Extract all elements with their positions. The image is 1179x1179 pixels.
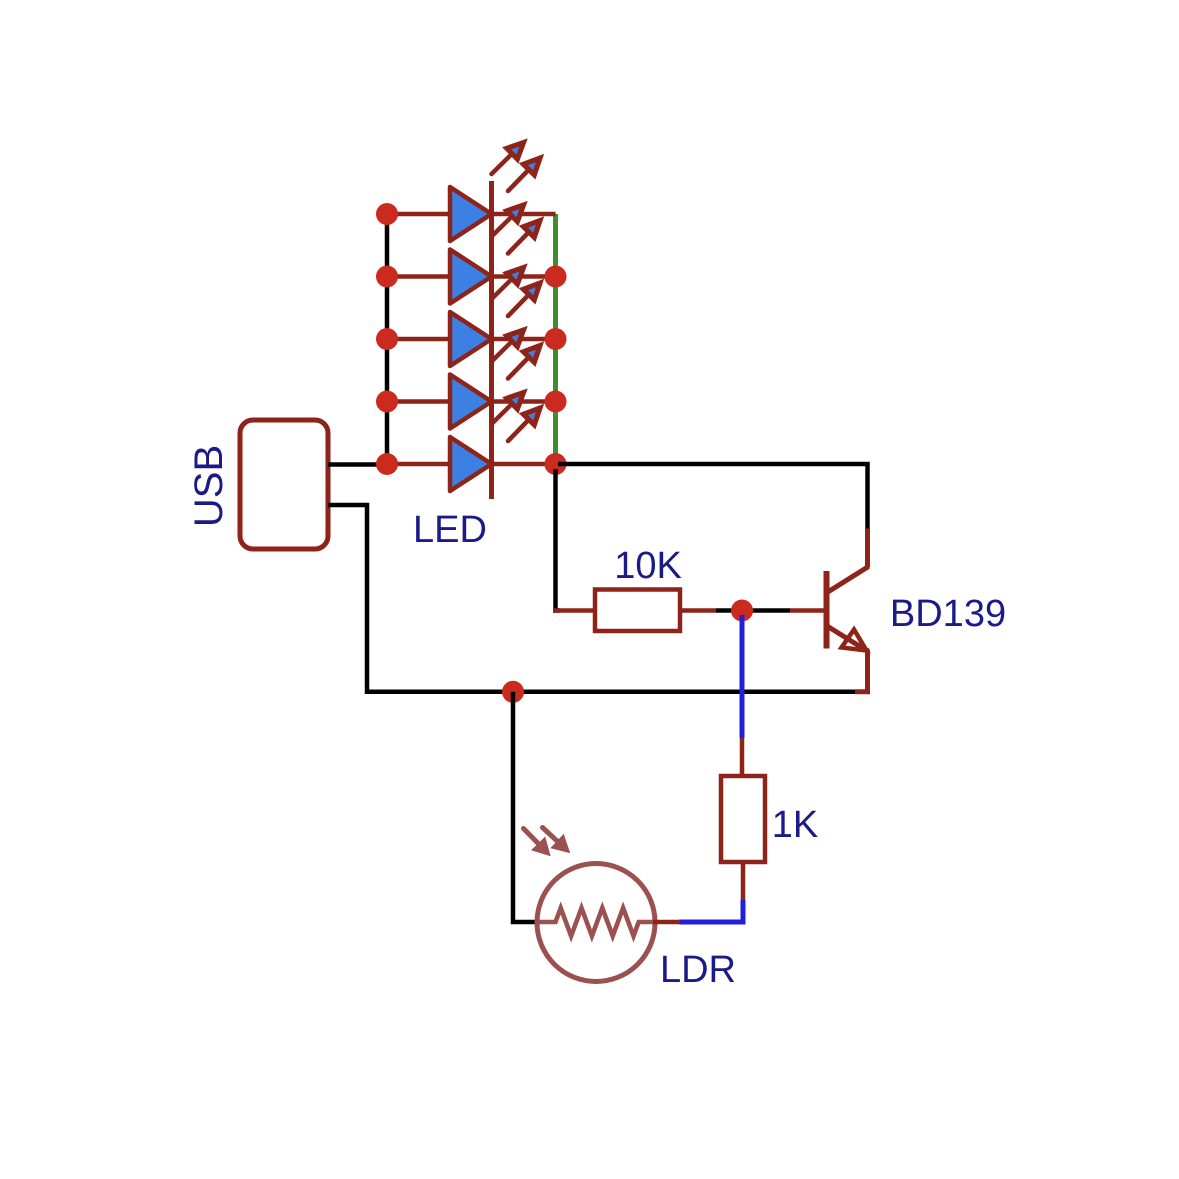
svg-text:LED: LED bbox=[413, 509, 487, 551]
wire LED D1 anode lead bbox=[387, 212, 450, 217]
LED D5 light arrow 2 bbox=[508, 408, 540, 441]
wire LED D5 cathode lead bbox=[492, 462, 556, 467]
wire USB pin1 to left LED bus (black) bbox=[328, 462, 383, 467]
wire LDR right lead bbox=[653, 920, 680, 925]
junction dot ground rail bbox=[502, 681, 524, 703]
transistor Q1 base bar bbox=[824, 571, 830, 649]
junction dot left bus row 3 bbox=[376, 328, 398, 350]
wire collector lead bbox=[865, 529, 870, 568]
wire 1K bottom lead bbox=[741, 862, 746, 900]
wire LED D3 cathode lead bbox=[492, 337, 556, 342]
LED D4 light arrow 2 bbox=[508, 346, 540, 379]
wire USB pin2 down-left rail (black) bbox=[328, 505, 858, 692]
junction dot left bus row 2 bbox=[376, 266, 398, 288]
wire LED D2 cathode lead bbox=[492, 274, 556, 279]
LED D2 light arrow 1 bbox=[492, 205, 524, 237]
wire 10K left lead bbox=[553, 608, 595, 613]
wire 1K to LDR (blue) bbox=[679, 900, 743, 922]
wire 10K right lead bbox=[680, 608, 716, 613]
junction dot left bus row 1 bbox=[376, 203, 398, 225]
LDR incident light arrow 1 bbox=[524, 829, 551, 856]
junction dot left bus row 5 bbox=[376, 453, 398, 475]
USB connector J1 bbox=[240, 420, 328, 549]
LDR R3 zigzag element bbox=[537, 908, 656, 936]
wire LED D2 anode lead bbox=[387, 274, 450, 279]
transistor Q1 collector diagonal bbox=[827, 567, 869, 593]
svg-text:LDR: LDR bbox=[660, 949, 736, 991]
resistor 1K bbox=[721, 776, 765, 862]
wire LED bus to collector (black) bbox=[558, 464, 868, 529]
junction dot right bus row 3 bbox=[545, 328, 567, 350]
svg-text:10K: 10K bbox=[614, 545, 682, 587]
LED D3 bbox=[450, 312, 492, 366]
transistor Q1 emitter arrow bbox=[842, 630, 867, 651]
wire emitter lead bbox=[855, 649, 868, 692]
wire 1K top lead bbox=[740, 738, 745, 776]
wire LED D4 anode lead bbox=[387, 399, 450, 404]
junction dot left bus row 4 bbox=[376, 391, 398, 413]
LED D3 light arrow 1 bbox=[492, 268, 524, 300]
LED D1 light arrow 1 bbox=[492, 143, 524, 175]
wire LED D5 anode lead bbox=[387, 462, 450, 467]
junction dot node B bbox=[731, 600, 753, 622]
wire node B to 1K (blue) bbox=[740, 615, 745, 738]
wire rail down to LDR (black) bbox=[513, 692, 539, 922]
LED D5 bbox=[450, 437, 492, 491]
wire left LED bus (black) bbox=[385, 214, 390, 464]
wire LED D3 anode lead bbox=[387, 337, 450, 342]
wire green LED cathode bus bbox=[553, 214, 558, 464]
wire LED D4 cathode lead bbox=[492, 399, 556, 404]
junction dot right bus row 5 bbox=[545, 453, 567, 475]
resistor 10K bbox=[595, 590, 680, 632]
LED D2 bbox=[450, 250, 492, 304]
LED D4 light arrow 1 bbox=[492, 330, 524, 362]
LED D4 bbox=[450, 375, 492, 429]
wire LED D1 cathode lead bbox=[492, 212, 556, 217]
junction dot right bus row 4 bbox=[545, 391, 567, 413]
wire node B segment (black) bbox=[716, 608, 790, 613]
LDR incident light arrow 2 bbox=[543, 828, 570, 853]
junction dot right bus row 2 bbox=[545, 266, 567, 288]
LED D1 light arrow 2 bbox=[508, 158, 540, 191]
LDR R3 body circle bbox=[537, 864, 655, 982]
transistor Q1 emitter diagonal bbox=[827, 626, 867, 651]
LED D3 light arrow 2 bbox=[508, 283, 540, 316]
LED D1 bbox=[450, 187, 492, 241]
wire cathode bus down to 10K (black) bbox=[556, 469, 561, 611]
wire LED common cathode line bbox=[489, 181, 494, 499]
svg-text:USB: USB bbox=[187, 445, 231, 527]
svg-text:1K: 1K bbox=[772, 804, 818, 846]
wire base lead bbox=[790, 608, 825, 613]
LED D5 light arrow 1 bbox=[492, 393, 524, 425]
LED D2 light arrow 2 bbox=[508, 221, 540, 254]
svg-text:BD139: BD139 bbox=[890, 593, 1006, 635]
